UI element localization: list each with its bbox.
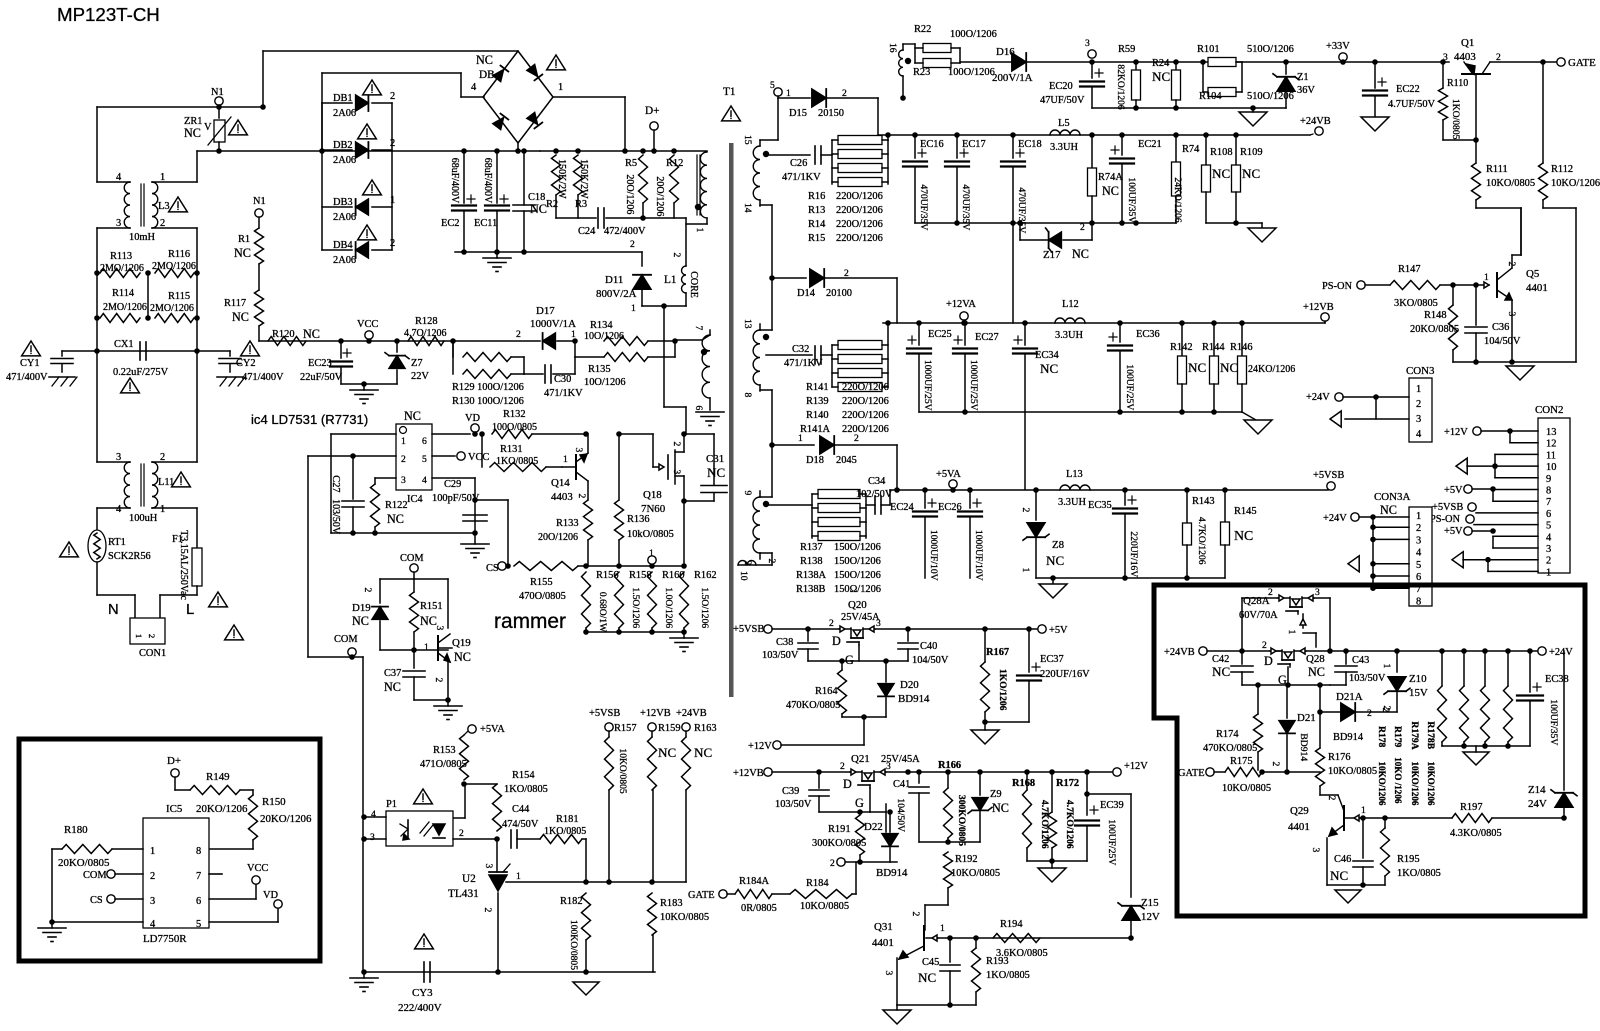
svg-text:Q1: Q1 [1461,37,1474,49]
svg-text:1: 1 [134,634,144,638]
svg-text:COM: COM [334,634,358,645]
svg-text:2: 2 [150,871,155,882]
svg-text:R155: R155 [530,577,553,588]
svg-text:EC11: EC11 [474,218,497,229]
svg-text:3: 3 [886,761,891,772]
svg-text:Q20: Q20 [848,599,867,611]
svg-text:BD914: BD914 [1333,732,1364,743]
svg-text:EC34: EC34 [1035,350,1059,361]
svg-text:R157: R157 [614,723,637,734]
svg-text:2: 2 [1506,262,1517,267]
svg-text:C45: C45 [922,957,939,968]
svg-text:PS-ON: PS-ON [1322,281,1353,292]
svg-text:10KO/1206: 10KO/1206 [1426,762,1436,806]
svg-text:2: 2 [1416,523,1421,534]
svg-text:CORE: CORE [688,271,699,298]
svg-text:220UF/16V: 220UF/16V [1040,669,1090,680]
svg-text:2: 2 [362,588,373,593]
svg-text:D21: D21 [1297,712,1316,724]
svg-text:R108: R108 [1210,147,1233,158]
svg-text:R194: R194 [1000,919,1023,930]
svg-text:R15: R15 [808,233,825,244]
svg-text:R149: R149 [206,771,230,783]
svg-text:12: 12 [1546,439,1556,450]
svg-text:4: 4 [116,504,122,515]
svg-text:2: 2 [910,912,921,917]
svg-text:36V: 36V [1297,85,1315,96]
svg-text:R141A: R141A [800,424,831,435]
svg-text:100UF/35V: 100UF/35V [1126,177,1137,223]
svg-text:2: 2 [854,433,859,444]
svg-text:2: 2 [160,452,165,463]
svg-text:R182: R182 [560,896,583,907]
svg-text:82KO/1206: 82KO/1206 [1115,64,1126,110]
svg-text:4.7UF/50V: 4.7UF/50V [1388,99,1436,110]
svg-text:471/1KV: 471/1KV [782,172,821,183]
svg-text:800V/2A: 800V/2A [596,288,637,300]
svg-text:20KO/1206: 20KO/1206 [260,813,312,825]
svg-text:10KO/0805: 10KO/0805 [1328,766,1377,777]
svg-text:R74: R74 [1182,144,1200,155]
svg-text:+24V: +24V [1306,392,1330,403]
svg-text:1: 1 [1416,511,1421,522]
svg-text:R150: R150 [262,796,286,808]
svg-text:N: N [108,602,119,618]
svg-text:1000UF/25V: 1000UF/25V [968,360,979,411]
svg-text:10mH: 10mH [129,232,155,243]
svg-text:15V: 15V [1409,687,1428,699]
svg-text:1000UF/25V: 1000UF/25V [922,360,933,411]
svg-text:R154: R154 [512,770,535,781]
svg-text:R145: R145 [1234,506,1257,517]
svg-text:150O/1206: 150O/1206 [834,570,881,581]
svg-text:P1: P1 [386,799,397,810]
svg-text:R117: R117 [224,298,246,309]
svg-text:2MO/1206: 2MO/1206 [100,263,144,274]
svg-text:D20: D20 [900,679,919,691]
svg-text:ic4 LD7531 (R7731): ic4 LD7531 (R7731) [251,412,368,427]
svg-text:R163: R163 [694,723,717,734]
svg-text:24V: 24V [1528,798,1547,810]
svg-text:G: G [845,653,854,667]
svg-text:EC16: EC16 [920,139,944,150]
svg-text:C26: C26 [790,158,807,169]
svg-text:60V/70A: 60V/70A [1239,610,1278,621]
svg-text:NC: NC [184,126,201,140]
svg-text:103/50V: 103/50V [1349,673,1386,684]
svg-text:NC: NC [1308,665,1325,679]
svg-text:8: 8 [742,393,753,398]
svg-text:1KO/0805: 1KO/0805 [986,970,1030,981]
svg-text:3: 3 [116,452,121,463]
svg-text:10kO/0805: 10kO/0805 [627,529,674,540]
svg-text:150O/1206: 150O/1206 [834,556,881,567]
svg-text:20KO/0805: 20KO/0805 [1410,324,1459,335]
svg-text:DB4: DB4 [333,240,353,251]
svg-text:104/50V: 104/50V [912,655,949,666]
svg-text:R144: R144 [1202,342,1225,353]
svg-text:COM: COM [400,553,424,564]
svg-text:R136: R136 [627,514,650,525]
svg-text:1: 1 [1546,567,1551,578]
svg-text:Z14: Z14 [1528,784,1546,796]
svg-text:EC39: EC39 [1100,800,1124,811]
svg-text:2: 2 [1416,399,1421,410]
svg-text:CON3A: CON3A [1374,491,1410,503]
svg-text:1KO/0805: 1KO/0805 [504,784,548,795]
svg-text:C24: C24 [578,226,596,237]
svg-text:R116: R116 [168,249,190,260]
svg-text:2A06: 2A06 [333,155,356,166]
svg-text:V: V [204,122,212,133]
svg-text:470KO/0805: 470KO/0805 [1203,743,1257,754]
svg-text:9: 9 [742,491,753,496]
svg-text:3.3UH: 3.3UH [1050,142,1078,153]
svg-text:1: 1 [1416,384,1421,395]
svg-text:C30: C30 [554,374,571,385]
svg-text:Z17: Z17 [1043,249,1061,261]
svg-text:220O/1206: 220O/1206 [842,424,889,435]
svg-text:R109: R109 [1240,147,1263,158]
svg-text:N1: N1 [211,87,224,98]
svg-text:10KO/0805: 10KO/0805 [660,912,709,923]
svg-text:Q28A: Q28A [1243,595,1270,607]
svg-text:220O/1206: 220O/1206 [836,233,883,244]
svg-text:1: 1 [1381,664,1392,669]
svg-text:NC: NC [1072,247,1089,261]
svg-text:R195: R195 [1397,854,1420,865]
svg-text:103/50V: 103/50V [330,499,341,535]
svg-text:DB2: DB2 [333,140,353,151]
svg-text:5: 5 [196,919,201,930]
svg-text:220O/1206: 220O/1206 [836,205,883,216]
svg-text:R146: R146 [1230,342,1253,353]
svg-text:100UF/25V: 100UF/25V [1106,819,1117,865]
svg-text:1: 1 [1361,805,1366,816]
svg-text:100UF/35V: 100UF/35V [1548,699,1559,745]
svg-text:R5: R5 [625,158,637,169]
svg-text:1: 1 [516,871,521,882]
svg-text:510O/1206: 510O/1206 [1247,44,1294,55]
svg-text:PS-ON: PS-ON [1430,514,1461,525]
svg-text:L3: L3 [158,201,170,212]
svg-text:EC2: EC2 [441,218,459,229]
svg-text:EC22: EC22 [1396,84,1420,95]
svg-text:R148: R148 [1424,310,1447,321]
svg-text:Z7: Z7 [411,358,423,369]
svg-text:4: 4 [150,919,156,930]
svg-text:EC18: EC18 [1018,139,1042,150]
svg-text:2: 2 [766,559,777,564]
svg-text:+5VSB: +5VSB [1313,470,1344,481]
svg-text:VCC: VCC [357,319,378,330]
svg-text:EC35: EC35 [1088,500,1112,511]
svg-text:1KO/1206: 1KO/1206 [997,669,1008,711]
svg-text:EC24: EC24 [890,502,914,513]
svg-text:1KO/0805: 1KO/0805 [496,456,538,467]
svg-text:47UF/50V: 47UF/50V [1040,95,1085,106]
svg-text:6: 6 [422,436,427,447]
svg-text:Q19: Q19 [452,637,471,649]
svg-text:+33V: +33V [1326,41,1350,52]
svg-text:2: 2 [1546,556,1551,567]
svg-text:100pF/50V: 100pF/50V [432,493,480,504]
svg-text:N1: N1 [253,196,266,207]
svg-text:R114: R114 [112,288,135,299]
svg-text:Z10: Z10 [1409,673,1427,685]
svg-text:3: 3 [401,475,406,486]
svg-text:2: 2 [829,618,834,629]
svg-text:C40: C40 [920,641,937,652]
svg-text:R1: R1 [238,234,250,245]
svg-text:C29: C29 [444,479,461,490]
svg-text:+12VA: +12VA [946,299,976,310]
svg-text:10: 10 [1546,462,1556,473]
svg-text:2: 2 [1270,762,1281,767]
svg-text:NC: NC [1046,553,1064,568]
svg-text:Q18: Q18 [643,489,662,501]
svg-text:10KO/0805: 10KO/0805 [800,901,849,912]
svg-text:Z8: Z8 [1052,539,1065,551]
svg-text:4401: 4401 [1288,821,1310,833]
svg-text:104/50V: 104/50V [1484,336,1521,347]
svg-text:C39: C39 [782,786,799,797]
svg-text:R179A: R179A [1409,721,1420,749]
svg-text:CX1: CX1 [114,339,134,350]
svg-text:24KO/1206: 24KO/1206 [1248,364,1295,375]
svg-text:EC25: EC25 [928,329,952,340]
svg-text:R135: R135 [588,364,611,375]
svg-text:471/400V: 471/400V [6,372,48,383]
svg-text:+24V: +24V [1549,647,1573,658]
svg-text:10KO/0805: 10KO/0805 [617,748,628,794]
svg-text:D17: D17 [536,305,555,317]
svg-text:Q29: Q29 [1290,805,1309,817]
svg-text:220O/1206: 220O/1206 [842,396,889,407]
svg-text:BD914: BD914 [876,867,908,879]
svg-text:3.3UH: 3.3UH [1058,497,1086,508]
svg-text:R184A: R184A [739,876,770,887]
svg-text:R179: R179 [1392,726,1403,748]
svg-text:D+: D+ [645,105,660,117]
svg-text:Q14: Q14 [551,477,570,489]
svg-text:NC: NC [1188,360,1206,375]
svg-text:3KO/0805: 3KO/0805 [1394,298,1438,309]
svg-text:+24VB: +24VB [1164,647,1195,658]
svg-text:10O/1206: 10O/1206 [584,377,626,388]
svg-text:NC: NC [1242,166,1260,181]
svg-text:R22: R22 [914,24,931,35]
svg-text:R101: R101 [1197,44,1220,55]
svg-text:3: 3 [883,971,894,976]
svg-text:R59: R59 [1118,44,1135,55]
svg-text:5: 5 [1416,560,1421,571]
svg-text:7: 7 [693,326,704,331]
svg-text:103/50V: 103/50V [762,650,799,661]
svg-text:D: D [832,634,841,648]
svg-text:4: 4 [1416,429,1422,440]
svg-text:D14: D14 [797,288,816,299]
svg-text:4: 4 [1416,548,1422,559]
svg-text:GATE: GATE [1178,768,1205,779]
svg-text:NC: NC [387,512,404,526]
svg-text:C32: C32 [792,344,809,355]
svg-text:R74A: R74A [1098,172,1123,183]
svg-text:22uF/50V: 22uF/50V [300,372,343,383]
svg-text:R175: R175 [1230,756,1253,767]
svg-text:COM: COM [83,870,107,881]
svg-text:IC4: IC4 [407,494,423,505]
svg-text:R113: R113 [110,251,132,262]
svg-text:8: 8 [196,846,201,857]
svg-text:2: 2 [390,91,395,102]
svg-text:220UF/16V: 220UF/16V [1128,531,1139,577]
svg-text:100O/0805: 100O/0805 [492,422,537,433]
svg-text:10: 10 [738,571,749,581]
svg-text:3: 3 [1416,414,1421,425]
svg-text:1: 1 [424,642,429,653]
svg-text:13: 13 [1546,427,1556,438]
svg-text:EC37: EC37 [1040,654,1064,665]
svg-text:R112: R112 [1551,164,1573,175]
svg-text:R139: R139 [806,396,829,407]
svg-text:474/50V: 474/50V [502,819,539,830]
svg-text:1KO/0805: 1KO/0805 [1450,99,1461,140]
svg-text:1: 1 [798,433,803,444]
svg-text:+12VB: +12VB [733,768,764,779]
svg-text:DB3: DB3 [333,197,353,208]
svg-text:R178B: R178B [1425,721,1436,749]
svg-text:8: 8 [1416,596,1421,607]
svg-text:470UF/35V: 470UF/35V [1016,187,1027,233]
svg-text:+24VB: +24VB [1300,116,1331,127]
svg-text:1: 1 [160,504,165,515]
svg-text:220O/1206: 220O/1206 [842,382,889,393]
svg-text:R197: R197 [1460,802,1483,813]
svg-text:3: 3 [1416,535,1421,546]
svg-text:471/1KV: 471/1KV [784,358,823,369]
svg-text:2: 2 [630,239,635,250]
svg-text:3: 3 [671,470,682,475]
svg-text:DB1: DB1 [333,93,353,104]
svg-text:10KO/1206: 10KO/1206 [1410,762,1420,806]
svg-text:TL431: TL431 [448,888,479,900]
svg-text:C46: C46 [1334,854,1351,865]
svg-text:DB: DB [479,69,495,81]
svg-text:D22: D22 [864,821,883,833]
svg-text:rammer: rammer [494,610,566,633]
svg-text:7: 7 [1546,497,1551,508]
svg-text:VCC: VCC [247,863,268,874]
svg-text:2: 2 [576,494,587,499]
svg-text:R129 100O/1206: R129 100O/1206 [452,382,524,393]
svg-text:4: 4 [116,172,122,183]
svg-text:10KO /1206: 10KO /1206 [1393,757,1403,804]
svg-text:NC: NC [384,680,401,694]
svg-text:3: 3 [1315,587,1320,598]
svg-text:R140: R140 [806,410,829,421]
svg-text:1: 1 [558,82,563,93]
svg-text:470O/0805: 470O/0805 [519,591,566,602]
svg-text:R156: R156 [596,570,619,581]
svg-text:4401: 4401 [872,937,894,949]
svg-text:1.5O/1206: 1.5O/1206 [630,587,641,628]
svg-text:471O/0805: 471O/0805 [420,759,467,770]
svg-text:150K/2W: 150K/2W [556,159,567,199]
svg-text:R180: R180 [64,824,88,836]
svg-text:R174: R174 [1216,729,1239,740]
svg-text:L1: L1 [664,274,677,286]
svg-text:3: 3 [116,218,121,229]
svg-text:D: D [843,777,852,791]
svg-text:11: 11 [1546,450,1556,461]
svg-text:1KO/0805: 1KO/0805 [1397,868,1441,879]
svg-text:2: 2 [1080,222,1085,233]
svg-text:Q5: Q5 [1526,268,1540,280]
svg-text:R131: R131 [500,444,523,455]
svg-text:NC: NC [1152,69,1170,84]
svg-text:NC: NC [232,310,249,324]
svg-text:2: 2 [160,218,165,229]
svg-text:R159: R159 [658,723,681,734]
svg-text:NC: NC [476,53,493,67]
svg-text:3: 3 [370,832,375,843]
svg-text:R137: R137 [800,542,823,553]
svg-text:103/50V: 103/50V [775,799,812,810]
svg-text:10KO/0805: 10KO/0805 [1222,783,1271,794]
svg-text:NC: NC [707,465,725,480]
svg-text:3: 3 [1546,544,1551,555]
svg-text:7: 7 [196,871,201,882]
svg-text:VD: VD [465,413,481,424]
svg-text:Q28: Q28 [1306,653,1325,665]
svg-text:+5VSB: +5VSB [1432,502,1463,513]
svg-text:1: 1 [631,303,636,314]
svg-text:4: 4 [422,475,427,486]
svg-text:6: 6 [1546,509,1551,520]
svg-text:IC5: IC5 [166,803,183,815]
svg-text:471/400V: 471/400V [242,372,284,383]
svg-text:510O/1206: 510O/1206 [1247,91,1294,102]
svg-text:100O/1206: 100O/1206 [950,29,997,40]
svg-text:NC: NC [352,614,369,628]
svg-text:3.3UH: 3.3UH [1055,330,1083,341]
svg-text:2045: 2045 [836,455,857,466]
svg-text:R168: R168 [1012,778,1035,789]
svg-text:R138: R138 [800,556,823,567]
svg-text:NC: NC [1212,166,1230,181]
svg-text:+24V: +24V [1323,513,1347,524]
svg-text:EC38: EC38 [1545,674,1569,685]
svg-text:Z15: Z15 [1141,897,1159,909]
svg-text:1: 1 [1484,272,1489,283]
svg-text:BD914: BD914 [1298,733,1309,761]
svg-text:470KO/0805: 470KO/0805 [786,700,840,711]
svg-text:R142: R142 [1170,342,1193,353]
svg-text:R16: R16 [808,191,825,202]
svg-text:R14: R14 [808,219,826,230]
svg-text:2: 2 [516,329,521,340]
svg-text:222/400V: 222/400V [398,1002,442,1014]
svg-text:VD: VD [263,890,279,901]
svg-text:300KO/0805: 300KO/0805 [956,795,967,846]
svg-text:R132: R132 [503,409,526,420]
svg-text:NC: NC [1220,360,1238,375]
svg-text:R176: R176 [1328,752,1351,763]
svg-text:4: 4 [1546,532,1552,543]
svg-text:12V: 12V [1141,911,1160,923]
svg-text:1: 1 [150,846,155,857]
